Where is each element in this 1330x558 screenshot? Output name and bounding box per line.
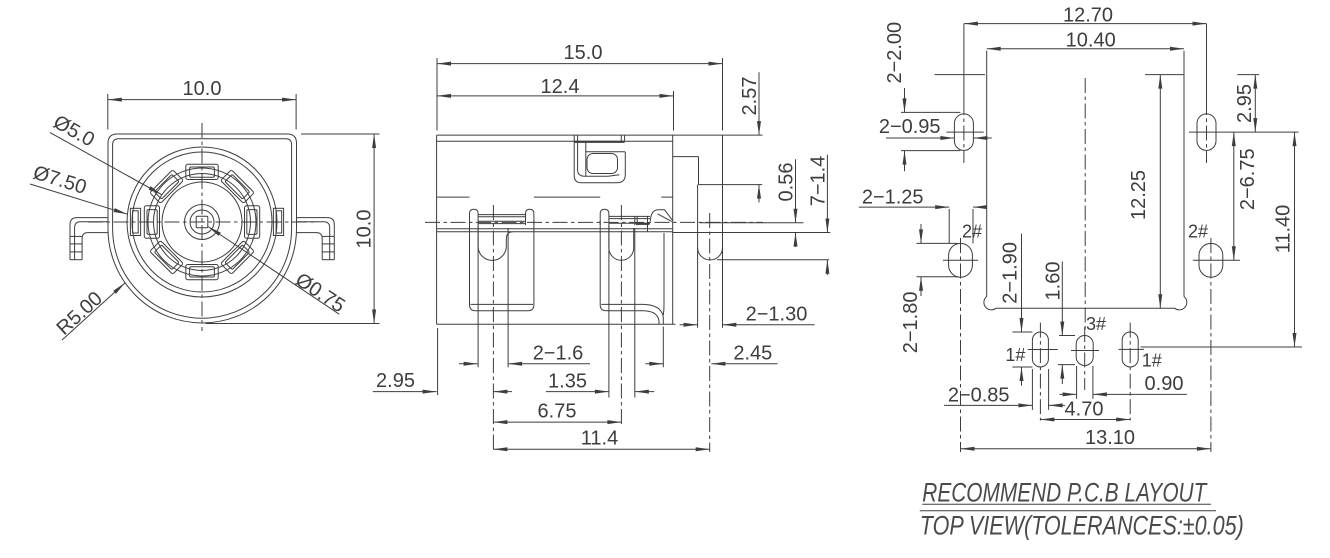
svg-text:1.60: 1.60	[1043, 262, 1065, 301]
svg-text:15.0: 15.0	[564, 42, 603, 64]
svg-text:6.75: 6.75	[538, 400, 577, 422]
svg-text:4.70: 4.70	[1065, 399, 1104, 421]
svg-text:2−1.80: 2−1.80	[900, 292, 922, 354]
svg-text:11.4: 11.4	[581, 428, 618, 450]
svg-text:12.25: 12.25	[1128, 170, 1150, 220]
svg-text:2−0.95: 2−0.95	[879, 116, 941, 138]
svg-text:2−6.75: 2−6.75	[1237, 148, 1259, 210]
svg-text:Ø0.75: Ø0.75	[291, 269, 349, 318]
svg-text:2−1.90: 2−1.90	[1000, 242, 1022, 304]
svg-text:1.35: 1.35	[548, 370, 587, 392]
svg-text:2−1.6: 2−1.6	[533, 342, 584, 364]
svg-text:2−2.00: 2−2.00	[884, 22, 906, 84]
svg-text:10.0: 10.0	[353, 210, 375, 249]
svg-text:R5.00: R5.00	[53, 288, 107, 340]
svg-text:2−0.85: 2−0.85	[948, 385, 1010, 407]
svg-text:12.70: 12.70	[1063, 5, 1113, 27]
svg-text:12.4: 12.4	[541, 76, 580, 98]
svg-text:TOP VIEW(TOLERANCES:±0.05): TOP VIEW(TOLERANCES:±0.05)	[920, 511, 1244, 541]
svg-text:2#: 2#	[962, 222, 982, 242]
svg-text:1#: 1#	[1142, 351, 1162, 371]
svg-text:2#: 2#	[1188, 222, 1208, 242]
svg-text:13.10: 13.10	[1085, 427, 1135, 449]
svg-text:11.40: 11.40	[1273, 205, 1295, 254]
svg-text:2−1.30: 2−1.30	[746, 304, 808, 326]
svg-text:10.0: 10.0	[183, 78, 222, 100]
svg-text:RECOMMEND P.C.B LAYOUT: RECOMMEND P.C.B LAYOUT	[922, 478, 1208, 508]
svg-text:10.40: 10.40	[1066, 29, 1116, 51]
svg-text:2.95: 2.95	[376, 370, 415, 392]
svg-text:0.56: 0.56	[776, 163, 798, 202]
svg-text:7−1.4: 7−1.4	[807, 156, 829, 207]
svg-text:2.57: 2.57	[739, 77, 761, 116]
svg-text:2−1.25: 2−1.25	[862, 187, 924, 209]
svg-text:0.90: 0.90	[1145, 373, 1184, 395]
svg-text:1#: 1#	[1005, 345, 1025, 365]
svg-text:2.45: 2.45	[733, 342, 772, 364]
svg-text:3#: 3#	[1086, 314, 1106, 334]
svg-text:2.95: 2.95	[1234, 84, 1256, 123]
